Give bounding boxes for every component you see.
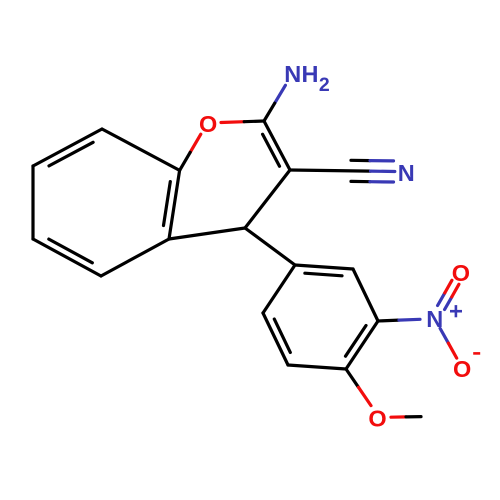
svg-text:N: N <box>398 160 415 186</box>
wire benzo fused edge C8a-C4a <box>169 170 180 239</box>
triple bond top line <box>351 159 370 163</box>
svg-text:2: 2 <box>319 74 330 96</box>
wire aryl edge C4'-C5' <box>288 365 346 369</box>
bond C2=C3 main <box>264 121 290 170</box>
double bond tick C3'=C4' <box>346 326 367 357</box>
wire benzo edge C4a-C5 <box>101 239 169 276</box>
charge plus of nitro N <box>450 310 462 313</box>
wire aryl edge C2'-C3' <box>353 269 378 321</box>
wire benzo edge C6-C7 <box>31 166 34 239</box>
triple bond bottom line <box>351 180 370 184</box>
double bond N=O line2 <box>445 297 452 310</box>
bond C2-NH2 <box>275 85 286 103</box>
bond O1-C2 <box>221 120 244 124</box>
double bond tick C5=C6 <box>49 239 93 263</box>
wire benzo edge C7-C8 <box>33 129 102 166</box>
svg-text:O: O <box>199 111 217 137</box>
svg-text:N: N <box>284 61 301 87</box>
svg-text:H: H <box>302 61 319 87</box>
bond C4-C1' <box>245 228 295 265</box>
charge minus of nitro O <box>473 352 480 355</box>
bond C3'-N+ <box>378 319 399 323</box>
bond C3-C(nitrile) and triple mid-line <box>290 170 371 171</box>
bond C3-C4 <box>245 170 290 228</box>
double bond tick C8a=C4a <box>164 182 171 226</box>
wire aryl edge C3'-C4' <box>346 321 378 369</box>
wire aryl edge C1'-C2' <box>295 265 353 269</box>
svg-text:O: O <box>453 356 471 382</box>
wire aryl edge C5'-C6' <box>263 313 288 365</box>
wire aryl edge C6'-C1' <box>263 265 295 313</box>
double bond tick C2=C3 <box>263 134 280 166</box>
double bond tick C7=C8 <box>49 142 93 166</box>
double bond N=O line1 <box>438 293 445 306</box>
svg-text:O: O <box>452 260 470 286</box>
bond C4-C4a <box>169 228 245 239</box>
double bond tick C1'=C2' <box>305 273 342 276</box>
svg-text:O: O <box>368 405 386 431</box>
bond C4'-O(methyl) <box>346 369 359 387</box>
double bond tick C5'=C6' <box>274 319 290 352</box>
wire benzo edge C8-C8a <box>102 129 180 170</box>
bond N-O- <box>440 328 448 343</box>
bond O-CH3 <box>391 415 406 419</box>
svg-text:N: N <box>426 306 443 332</box>
wire benzo edge C5-C6 <box>33 239 101 276</box>
bond O1-C8a <box>190 134 201 152</box>
